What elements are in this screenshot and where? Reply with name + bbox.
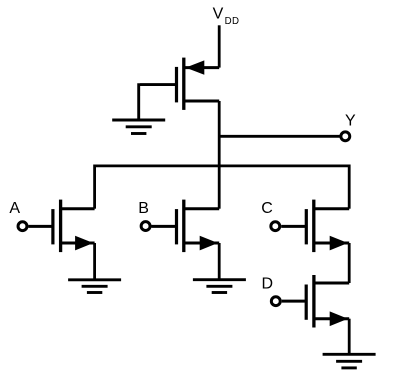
- svg-text:DD: DD: [225, 16, 240, 27]
- transistor A: [53, 200, 95, 253]
- wire VDD to load transistor source: [218, 25, 221, 67]
- wire B source to ground: [218, 243, 221, 280]
- ground (B source): [193, 280, 246, 293]
- transistor D: [306, 275, 349, 328]
- net label Y: [345, 112, 356, 129]
- wire A source to ground: [93, 243, 96, 280]
- ground (A source): [68, 280, 121, 293]
- svg-text:B: B: [138, 200, 149, 217]
- wire terminal C to gate: [281, 225, 306, 228]
- svg-text:Y: Y: [345, 112, 356, 129]
- ground (D source): [323, 354, 376, 368]
- wire load gate to ground: [139, 83, 177, 120]
- terminal A: [18, 222, 27, 231]
- wire terminal D to gate: [282, 300, 307, 303]
- wire load drain to output node: [218, 101, 221, 166]
- wire bus to B drain: [218, 166, 221, 209]
- ground (load gate): [112, 120, 165, 134]
- svg-text:C: C: [261, 200, 273, 217]
- transistor load (pull-up): [177, 58, 220, 110]
- net label VDD: [213, 5, 240, 27]
- wire terminal A to gate: [28, 225, 53, 228]
- transistor C: [306, 200, 349, 253]
- svg-text:D: D: [262, 276, 274, 293]
- transistor B: [177, 200, 220, 253]
- terminal C: [271, 222, 280, 231]
- terminal D: [271, 297, 280, 306]
- wire bus to A drain: [93, 165, 96, 209]
- wire output node to terminal Y: [219, 135, 340, 138]
- svg-text:V: V: [213, 5, 224, 22]
- wire C source to D drain: [348, 243, 351, 283]
- wire D source to ground: [348, 319, 351, 355]
- wire bus (drains of A,B,C): [95, 164, 350, 167]
- net label A: [9, 200, 20, 217]
- net label C: [261, 200, 273, 217]
- wire terminal B to gate: [151, 225, 176, 228]
- terminal B: [141, 222, 150, 231]
- terminal Y: [341, 132, 350, 141]
- net label B: [138, 200, 149, 217]
- svg-text:A: A: [9, 200, 20, 217]
- net label D: [262, 276, 274, 293]
- wire bus to C drain: [348, 165, 351, 209]
